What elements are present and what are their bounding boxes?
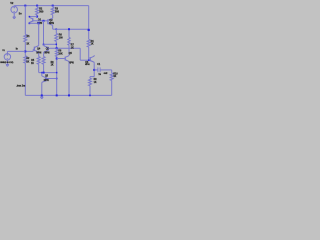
svg-text:500: 500 (39, 11, 44, 14)
resistor R6 (55, 33, 58, 41)
junction Q1 C (29, 16, 31, 18)
wire R8 column to rail (56, 57, 58, 96)
resistor R1 (24, 34, 27, 42)
svg-text:R10: R10 (113, 73, 118, 75)
wire jog to R6 (53, 28, 57, 30)
junction Q3 collector (43, 44, 45, 46)
wire right supply column (88, 6, 90, 40)
svg-text:NPN: NPN (45, 52, 50, 54)
wire R6 bottom (55, 41, 57, 48)
junction Q5low base tap (56, 78, 58, 80)
svg-text:1K: 1K (26, 61, 29, 63)
junction base tie (43, 20, 45, 22)
junction rail Q5up E (68, 94, 70, 96)
junction rail Q6 E (89, 95, 91, 97)
wire cap to R10 (100, 69, 112, 71)
wire tail2 (39, 72, 57, 74)
junction strap R6 col (56, 44, 58, 46)
wire to Q4 base (32, 48, 35, 50)
junction Q1 E (29, 22, 31, 24)
transistor Q5 lower (41, 75, 43, 76)
wire Q3 E down (43, 53, 45, 56)
wire jog down (89, 77, 91, 79)
junction input node (24, 50, 26, 52)
wire jog up (32, 49, 34, 51)
wire to Q5low C (41, 73, 43, 75)
wire Q5low base (45, 78, 57, 80)
wire R2 bottom (36, 15, 38, 17)
resistor R lower (24, 56, 27, 63)
junction rail gnd (41, 94, 43, 96)
wire R1 to R lower (24, 42, 26, 56)
junction supply col (88, 29, 90, 31)
junction R9 tail2 (43, 72, 45, 74)
junction R4 Q6base (88, 59, 90, 61)
svg-text:1K: 1K (26, 43, 29, 45)
transistor Q4 (38, 45, 40, 46)
svg-text:1K: 1K (91, 43, 94, 45)
junction tail top (38, 22, 40, 24)
svg-text:out: out (104, 72, 108, 75)
wire to Q6 base (80, 59, 91, 61)
voltage source V2 (11, 6, 18, 13)
svg-text:1K: 1K (94, 82, 97, 84)
resistor R3 (51, 7, 54, 15)
wire Q5up E to rail (68, 62, 70, 95)
wire V1 minus (6, 60, 8, 64)
wire to cap (94, 69, 98, 71)
wire V2 plus stub (13, 5, 15, 8)
wire base tie down to Q3 C (43, 21, 45, 45)
junction Q5up base tap (56, 58, 58, 60)
junction tail2 col (56, 72, 58, 74)
wire R7 to Q5up C (68, 45, 70, 55)
wire emitter R to rail (89, 86, 91, 96)
wire Q5up base (57, 58, 65, 60)
transistor Q1 (28, 16, 30, 19)
wire mid to R7 (68, 29, 70, 37)
wire Q1-Q2 base tie (33, 20, 48, 22)
wire R5 bottom (38, 64, 40, 72)
wire rail to R3 (52, 6, 54, 8)
wire Q3 collector to R6 node (44, 43, 57, 45)
wire emitter to tail (29, 22, 38, 24)
junction rail R2 (36, 5, 38, 7)
wire to R6 top (55, 29, 57, 33)
junction Q5low C (41, 72, 43, 74)
svg-text:NPN: NPN (69, 62, 74, 64)
wire left column top (24, 6, 26, 35)
wire V1 plus (6, 51, 8, 53)
svg-text:500: 500 (55, 11, 60, 14)
junction rail R8col (56, 94, 58, 96)
junction rail R3 (52, 5, 54, 7)
wire Q4 E down (38, 53, 40, 56)
svg-text:1K: 1K (113, 76, 116, 78)
wire Q5low E to rail (41, 83, 43, 95)
svg-text:NPN: NPN (85, 64, 90, 66)
svg-text:1K: 1K (51, 64, 54, 66)
junction R2 node (36, 16, 38, 18)
resistor R4 (87, 39, 90, 47)
svg-text:V2: V2 (10, 1, 14, 5)
wire V2 minus (13, 13, 15, 17)
ground under V2 (13, 16, 16, 18)
wire R9 bottom (43, 64, 45, 72)
resistor R5 (37, 57, 40, 65)
junction cap tap (93, 69, 95, 71)
wire input node to jog (25, 50, 33, 52)
transistor Q6 (93, 54, 95, 57)
wire V1 to input node (7, 50, 25, 52)
junction Q2 emitter node (56, 28, 58, 30)
ground bottom (40, 96, 43, 98)
ground under V1 (6, 64, 9, 66)
svg-text:NPN: NPN (49, 23, 54, 25)
junction rail R1 column (24, 5, 26, 7)
wire R4 down (88, 47, 90, 60)
transistor Q2 (52, 17, 54, 18)
transistor Q3 (43, 45, 45, 46)
resistor R8 (55, 50, 58, 57)
wire node to R8 (56, 48, 58, 49)
voltage source V1 (4, 54, 10, 60)
resistor R2 (36, 7, 39, 15)
svg-text:10K: 10K (58, 53, 63, 55)
wire left column to rail (24, 63, 26, 95)
wire top 5V rail (14, 5, 89, 7)
svg-text:1K: 1K (31, 63, 34, 65)
svg-text:NPN: NPN (44, 80, 49, 82)
transistor Q5 upper (68, 54, 70, 57)
resistor R7 (68, 38, 70, 46)
wire Q6 emitter down (93, 63, 95, 76)
junction mid R7 (68, 28, 70, 30)
resistor R10 (110, 73, 113, 81)
wire rail to R2 (36, 6, 38, 8)
wire Q3 base stub (48, 47, 50, 49)
wire Q2 emitter down (52, 27, 54, 30)
svg-text:SINE(0 0.5 1K): SINE(0 0.5 1K) (0, 62, 13, 64)
wire down to R10 (111, 70, 113, 73)
wire second stage node (50, 47, 80, 49)
svg-text:.tran 2m: .tran 2m (16, 84, 25, 87)
resistor on Q6 emitter (89, 78, 92, 86)
wire jog to emitter resistor (90, 76, 94, 78)
junction node R8 (56, 47, 58, 49)
resistor R9 (42, 57, 45, 65)
wire R3 to Q2 (52, 15, 54, 17)
wire to Q1 collector (29, 16, 37, 18)
wire down toward Q6 base (79, 48, 81, 60)
capacitor C1 (97, 67, 99, 72)
svg-text:1K: 1K (71, 47, 74, 49)
wire tail down to Q4 C (38, 23, 40, 44)
wire bottom rail (25, 94, 111, 96)
wire mid node (56, 28, 88, 30)
wire R10 to rail (111, 81, 113, 96)
